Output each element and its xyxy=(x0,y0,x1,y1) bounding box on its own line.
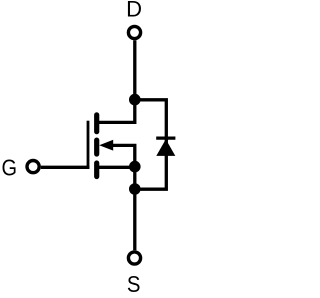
MOSFET body arrow (pointing to gate) xyxy=(99,140,113,151)
body diode triangle (anode, pointing up) xyxy=(156,139,175,156)
drain terminal circle xyxy=(128,26,140,38)
junction: source node xyxy=(129,183,141,195)
MOSFET body channel bar xyxy=(94,140,99,154)
body diode cathode bar xyxy=(156,137,175,140)
MOSFET drain channel bar xyxy=(94,115,99,132)
MOSFET gate line xyxy=(87,121,90,169)
svg-text:D: D xyxy=(126,0,142,22)
MOSFET source channel bar xyxy=(94,163,99,177)
wire: body arrow to source node xyxy=(112,145,135,166)
svg-text:G: G xyxy=(2,154,18,180)
wire: drain vertical down to corner and left to top channel bar xyxy=(96,40,135,122)
wire: source vertical xyxy=(133,167,136,250)
svg-text:S: S xyxy=(127,271,141,297)
junction: drain node xyxy=(129,94,141,106)
wire: gate lead xyxy=(41,166,90,169)
wire: body-diode branch loop (right side) xyxy=(135,100,167,189)
gate terminal circle xyxy=(27,161,39,173)
wire: source channel bar to source node xyxy=(98,166,135,169)
source terminal circle xyxy=(128,252,140,264)
junction: body/source node xyxy=(129,161,141,173)
